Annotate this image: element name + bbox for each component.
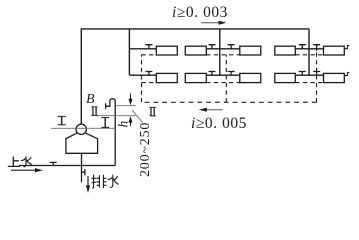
riser A	[128, 29, 130, 75]
drain valve	[82, 169, 85, 175]
valve V10	[313, 72, 320, 76]
radiator R5	[324, 46, 345, 55]
boiler vessel	[66, 133, 98, 154]
radiator R2	[185, 46, 206, 55]
label II left	[91, 107, 97, 116]
valve V9	[299, 72, 306, 76]
valve V1	[145, 45, 152, 49]
wire dashed return row2 middle	[206, 82, 240, 84]
svg-text:200~250: 200~250	[138, 122, 153, 177]
arrow slope bottom	[199, 108, 223, 112]
radiator R7	[185, 73, 206, 82]
valve V7	[209, 72, 216, 76]
label shangshui (supply water)	[8, 156, 32, 167]
label I left	[58, 116, 66, 124]
svg-text:B: B	[86, 92, 95, 107]
expansion pipe gooseneck	[106, 99, 116, 166]
radiator R6	[156, 73, 177, 82]
label paishui (drain water)	[91, 175, 118, 189]
wire top supply main	[81, 29, 309, 124]
wire dashed return row1 middle	[206, 54, 240, 56]
wire dashed return row1 right	[295, 54, 323, 56]
supply valve	[50, 162, 57, 165]
radiator R8	[240, 73, 261, 82]
arrow drain flow	[86, 176, 90, 193]
hairline level II-II	[116, 105, 136, 107]
radiator R10	[324, 73, 345, 82]
wire top row supply pipes	[130, 48, 324, 50]
valve V6	[145, 72, 152, 76]
svg-text:i≥0. 005: i≥0. 005	[191, 115, 247, 132]
radiator R1	[156, 46, 177, 55]
air-vent curl on R10	[344, 72, 349, 75]
radiator R9	[275, 73, 296, 82]
valve V2	[209, 45, 216, 49]
wire bottom row supply pipes	[130, 74, 324, 76]
svg-text:i≥0. 003: i≥0. 003	[172, 4, 228, 21]
hairline level mid	[96, 115, 135, 117]
radiator R3	[240, 46, 261, 55]
wire dashed return main	[142, 101, 317, 103]
wire dashed return row2 right	[295, 82, 323, 84]
svg-text:h: h	[115, 121, 130, 128]
valve V3	[228, 45, 235, 49]
valve V4	[299, 45, 306, 49]
wire bottom supply pipe	[19, 165, 115, 167]
label II right	[149, 107, 155, 116]
wire dashed return row1 left	[142, 54, 157, 56]
wire dashed drop right	[316, 50, 318, 102]
arrow supply flow	[11, 168, 43, 172]
pump circle	[76, 124, 86, 134]
riser C	[308, 29, 310, 75]
wire dashed return row2 left	[142, 82, 157, 84]
leader 200~250	[132, 110, 142, 122]
dimension h arrows	[129, 94, 133, 127]
valve V8	[228, 72, 235, 76]
wire dashed drop middle	[225, 55, 227, 103]
hairline level I-I	[51, 127, 116, 129]
arrow slope top	[201, 21, 227, 25]
wire boiler drain pipe	[81, 153, 83, 182]
valve V5	[313, 45, 320, 51]
radiator R4	[275, 46, 296, 55]
riser B	[219, 29, 221, 75]
wire dashed drop left	[141, 55, 143, 103]
label I right	[101, 118, 109, 128]
air-vent curl on R5	[344, 45, 349, 48]
